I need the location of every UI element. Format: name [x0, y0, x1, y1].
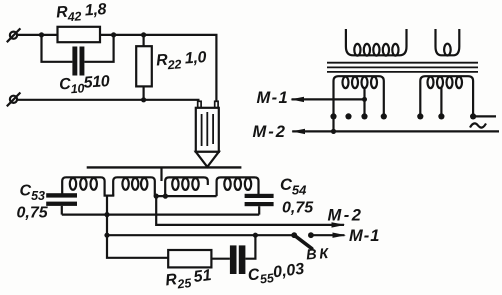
svg-text:R2551: R2551: [164, 267, 213, 293]
node junction right of R42: [111, 32, 116, 37]
transformer core: [327, 63, 478, 72]
wire R22 bottom: [143, 86, 145, 99]
wire left lead down to M-2 bus: [332, 116, 334, 131]
node junction left of R42: [39, 32, 44, 37]
arrowhead M-1 upper (points left): [291, 97, 305, 102]
capacitor C53: [46, 193, 77, 206]
tick from pen rest line: [160, 167, 162, 181]
svg-text:C53: C53: [20, 183, 46, 204]
node junction L3 start: [163, 194, 168, 199]
node junction R22 bottom: [141, 97, 146, 102]
node junction center tap M-1: [362, 97, 367, 102]
resistor R22: [136, 46, 152, 86]
coil winding L3: [165, 177, 208, 196]
coil winding L4: [217, 177, 259, 196]
wire C10 branch left: [42, 35, 73, 62]
wire AC supply lead: [473, 115, 496, 117]
svg-text:C550,03: C550,03: [247, 261, 306, 288]
svg-text:C10510: C10510: [59, 73, 111, 97]
capacitor C10: [72, 47, 84, 76]
coil baseline segment L1-L2: [104, 195, 115, 197]
coil winding L1: [62, 177, 104, 195]
coil winding L2: [113, 177, 155, 196]
switch VK lever: [294, 235, 312, 248]
wire R25 to C55: [211, 258, 230, 260]
arrowhead M-2 upper (points left): [292, 129, 306, 134]
arrowhead M-1 lower: [333, 233, 347, 238]
pen tip triangle: [196, 152, 219, 167]
wire M-2 takeoff vertical: [156, 196, 344, 225]
svg-text:М-1: М-1: [257, 89, 290, 107]
node junction top of R22: [141, 32, 146, 37]
wire bottom input line to pen: [17, 99, 200, 101]
svg-text:0,75: 0,75: [17, 205, 49, 222]
wire C55 right riser to M-1 line: [245, 235, 255, 259]
pen left pin: [198, 101, 201, 108]
node junction M-1 line: [104, 233, 109, 238]
terminal dots lower-left winding: [330, 113, 387, 119]
svg-text:М-2: М-2: [328, 207, 364, 225]
wire M-1 upper line: [292, 98, 365, 100]
svg-text:В К: В К: [306, 246, 330, 264]
capacitor C54: [245, 194, 274, 206]
resistor R42: [58, 27, 101, 42]
wire capacitor bus: [62, 214, 259, 216]
capacitor C55: [230, 245, 246, 274]
wire M-1 line left segment: [107, 234, 294, 236]
input terminal 1: [7, 28, 21, 42]
svg-text:C54: C54: [280, 176, 307, 198]
node junction capacitor bus: [104, 212, 109, 217]
AC symbol ~: [470, 123, 486, 127]
resistor R25: [168, 250, 211, 267]
transformer lower-left winding: [334, 76, 384, 116]
svg-text:0,75: 0,75: [282, 200, 314, 217]
svg-text:М-1: М-1: [349, 227, 380, 245]
svg-text:М-2: М-2: [253, 123, 287, 141]
coil baseline segment L2-L4: [155, 195, 217, 197]
wire C10 branch right: [84, 35, 113, 62]
input terminal 2: [7, 93, 21, 107]
wire R22 top: [143, 35, 145, 46]
node junction M-2 bus: [331, 129, 336, 134]
wire M-2 upper line: [292, 130, 499, 132]
transformer upper-right winding: [436, 29, 460, 55]
transformer upper-left winding: [346, 29, 407, 56]
wire M-1 line right segment: [314, 234, 345, 236]
arrowhead M-2 lower: [332, 222, 346, 227]
pen right pin: [215, 101, 218, 108]
wire lower-right winding center tap: [440, 87, 442, 116]
wire terminal1 to R42: [17, 34, 58, 36]
wire C53 bottom lead: [61, 206, 63, 215]
wire lower-left winding center tap: [363, 87, 365, 116]
wire C54 bottom lead: [258, 206, 260, 214]
switch VK contact 2: [308, 232, 314, 238]
pen body: [196, 108, 219, 152]
svg-text:R42 1,8: R42 1,8: [56, 1, 108, 25]
svg-text:R22 1,0: R22 1,0: [156, 49, 208, 73]
pen inner electrode lines: [202, 112, 214, 146]
pen rest line: [87, 166, 242, 168]
wire long vertical from L1-L2 junction down to R25: [107, 196, 168, 258]
node junction C55 riser on M-1 line: [253, 233, 258, 238]
wire top line corner down to pen pin: [215, 35, 217, 102]
wire R42 to corner: [100, 34, 218, 36]
terminal dots lower-right winding: [417, 113, 476, 119]
transformer lower-right winding: [420, 76, 473, 116]
switch VK contact 1: [291, 232, 297, 238]
node junction L2 end: [154, 194, 159, 199]
